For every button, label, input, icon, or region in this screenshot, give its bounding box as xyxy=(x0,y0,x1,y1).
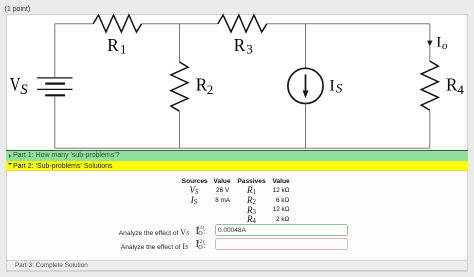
wire left vertical lower (battery to bottom) xyxy=(54,96,56,148)
battery VS plate short bottom xyxy=(45,94,65,96)
answer input 1 (correct, green) xyxy=(215,224,348,236)
svg-text:3: 3 xyxy=(246,41,253,56)
answer row 2 symbol IO(2) xyxy=(196,240,199,250)
svg-text:V: V xyxy=(10,75,21,96)
answer row 2 label xyxy=(0,242,188,251)
part 2 content background xyxy=(7,171,468,260)
circuit image white background xyxy=(7,15,465,151)
svg-text:I: I xyxy=(436,34,441,50)
svg-text:S: S xyxy=(20,82,28,98)
part 3 header bar xyxy=(6,260,469,272)
svg-text:S: S xyxy=(336,81,343,96)
current source IS circle xyxy=(288,68,323,103)
wire right vertical upper (node B down) xyxy=(429,24,431,61)
wire top middle (R1 to R3) xyxy=(142,23,218,25)
svg-text:o: o xyxy=(442,40,448,52)
wire IS branch lower xyxy=(305,104,307,149)
wire bottom horizontal xyxy=(55,147,430,149)
table row 3: R3 12k xyxy=(247,205,256,216)
answer row 1 symbol IO(1) xyxy=(196,227,199,237)
battery VS plate long xyxy=(37,88,72,90)
part 1 triangle xyxy=(9,154,11,158)
resistor R1 xyxy=(93,15,141,32)
resistor R2 xyxy=(171,62,188,111)
svg-text:R: R xyxy=(107,35,118,55)
part 2 triangle xyxy=(8,163,12,165)
wire top right (R3 to node B) xyxy=(267,23,430,25)
current source IS arrow xyxy=(305,75,307,92)
svg-text:1: 1 xyxy=(120,41,127,56)
data table headers xyxy=(182,178,208,185)
table row 2: IS 8mA R2 6k xyxy=(191,195,197,206)
svg-text:R: R xyxy=(196,75,207,95)
answer row 1 label xyxy=(0,228,189,237)
wire top-left horizontal (node A to R1) xyxy=(55,23,93,25)
svg-text:4: 4 xyxy=(457,82,464,97)
svg-text:R: R xyxy=(234,35,245,55)
wire R2 branch upper xyxy=(179,24,181,62)
resistor R4 xyxy=(421,61,438,110)
part 2 text xyxy=(13,163,113,170)
svg-text:R: R xyxy=(446,75,457,95)
wire R2 branch lower xyxy=(179,111,181,148)
resistor R3 xyxy=(218,15,267,32)
table row 1: VS 26V R1 12k xyxy=(190,185,199,196)
points line xyxy=(5,6,31,13)
wire R4 branch lower xyxy=(429,110,431,148)
battery VS plate long top xyxy=(37,77,72,79)
battery VS plate short xyxy=(45,82,65,84)
wire IS branch upper xyxy=(305,24,307,69)
part 3 text xyxy=(15,262,88,269)
part 1 text xyxy=(13,152,120,159)
table row 4: R4 2k xyxy=(247,214,256,225)
current Io arrowhead xyxy=(427,41,432,47)
svg-text:2: 2 xyxy=(207,82,214,97)
svg-text:I: I xyxy=(330,78,335,95)
circuit schematic svg xyxy=(0,0,474,160)
part 1 header bar (green) xyxy=(6,150,469,161)
part 2 header bar (yellow) xyxy=(6,161,469,171)
wire left vertical upper (to battery) xyxy=(54,24,56,77)
answer input 2 (incorrect, red) xyxy=(215,238,348,250)
